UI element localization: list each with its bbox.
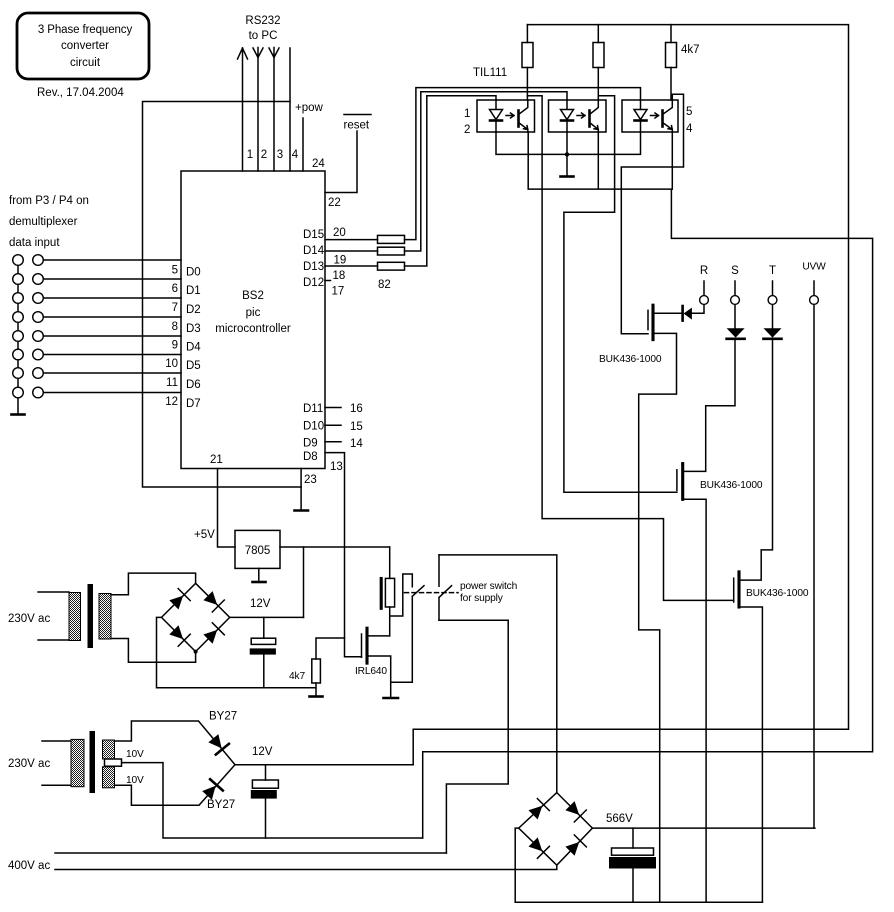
wire Q4 drain to relay coil bbox=[367, 635, 390, 637]
svg-text:IRL640: IRL640 bbox=[355, 666, 387, 677]
switch linkage (dashed) bbox=[405, 592, 459, 594]
wire 12V node riser bbox=[303, 547, 305, 617]
resistor R pull-up 1 bbox=[526, 25, 528, 100]
svg-text:400V ac: 400V ac bbox=[8, 860, 50, 872]
node +V top rail (pull-up rail) bbox=[413, 25, 848, 765]
svg-text:1: 1 bbox=[464, 108, 470, 120]
diode B1 bottom-right bbox=[203, 630, 217, 644]
wire T1 secondary top to bridge AC1 bbox=[111, 573, 196, 595]
svg-text:8: 8 bbox=[172, 321, 178, 333]
wire Q2 drain to S diode bbox=[683, 304, 735, 471]
svg-text:230V ac: 230V ac bbox=[8, 613, 50, 625]
diode B1 bottom-left bbox=[169, 625, 183, 639]
svg-text:7: 7 bbox=[172, 302, 178, 314]
wire RS232 line 2 (pin 2) with fork arrowhead bbox=[253, 48, 263, 172]
svg-text:circuit: circuit bbox=[70, 57, 101, 69]
diode D1 (R phase, pointing left) bbox=[681, 306, 684, 321]
svg-text:24: 24 bbox=[312, 158, 325, 170]
wire relay coil top to 12V line bbox=[389, 547, 391, 578]
wire data line D7 bbox=[43, 392, 181, 394]
wire Q3 drain to T diode bbox=[739, 304, 773, 580]
wire reset to pin 22 bbox=[325, 131, 357, 193]
wire switch S2 bottom to 400V line 1 bbox=[439, 620, 508, 853]
wire T1 primary top bbox=[38, 591, 69, 593]
opto-coupler U4 TIL111 box 3 bbox=[622, 100, 678, 132]
wire RS232 line 3 (pin 3) with fork arrowhead bbox=[269, 48, 279, 172]
svg-text:demultiplexer: demultiplexer bbox=[9, 216, 78, 228]
svg-text:for supply: for supply bbox=[460, 593, 504, 604]
svg-text:15: 15 bbox=[350, 421, 363, 433]
transformer T2 primary winding bbox=[71, 739, 84, 786]
svg-text:from P3 / P4 on: from P3 / P4 on bbox=[9, 195, 89, 207]
wire T1 primary bottom bbox=[38, 639, 69, 641]
svg-text:D15: D15 bbox=[303, 229, 324, 241]
transformer T1 secondary winding bbox=[99, 594, 111, 640]
svg-text:BUK436-1000: BUK436-1000 bbox=[599, 354, 662, 365]
regulator U5 7805 bbox=[235, 530, 280, 568]
diode B3 top-left bbox=[529, 806, 543, 820]
svg-text:6: 6 bbox=[172, 283, 178, 295]
wire D8 pin13 to IRL640 gate bbox=[325, 453, 362, 657]
microcontroller U1 BS2 box bbox=[181, 171, 325, 469]
svg-text:D13: D13 bbox=[303, 261, 324, 273]
svg-text:4: 4 bbox=[686, 123, 693, 135]
diode B3 top-right bbox=[565, 801, 579, 815]
wire R terminal stub bbox=[703, 281, 705, 296]
svg-text:microcontroller: microcontroller bbox=[215, 323, 291, 335]
capacitor C2 leads bbox=[265, 765, 267, 838]
opto 3 phototransistor bbox=[661, 111, 664, 127]
wire T2 secondary B to diode D5 bbox=[115, 765, 235, 806]
resistor 82 (bottom) bbox=[378, 262, 405, 270]
wire data line D3 bbox=[43, 316, 181, 318]
wire Q2 source to DC- rail bbox=[683, 499, 706, 902]
svg-text:2: 2 bbox=[464, 124, 470, 136]
svg-text:T: T bbox=[769, 265, 776, 277]
wire switch S2 top to bridge B3 AC1 bbox=[439, 555, 557, 793]
wire resistor3 to LED1 anode bus bbox=[405, 96, 497, 266]
relay coil K1 bbox=[385, 578, 394, 607]
ground (pin 23) bbox=[295, 509, 309, 512]
diode D3 (T phase, pointing down) bbox=[764, 328, 782, 337]
wire data chain vertical (left pin column) bbox=[17, 260, 19, 398]
capacitor C1 leads bbox=[263, 617, 265, 687]
svg-text:power switch: power switch bbox=[460, 581, 517, 592]
wire resistor1 to LED3 anode bus bbox=[405, 88, 641, 240]
svg-text:S: S bbox=[731, 265, 739, 277]
svg-text:16: 16 bbox=[350, 403, 363, 415]
svg-text:4k7: 4k7 bbox=[681, 44, 700, 56]
svg-text:BUK436-1000: BUK436-1000 bbox=[746, 588, 809, 599]
svg-text:D1: D1 bbox=[186, 285, 201, 297]
svg-text:Rev., 17.04.2004: Rev., 17.04.2004 bbox=[37, 87, 124, 99]
wire S terminal stub bbox=[734, 281, 736, 296]
wire RS232 line 1 (pin 1) with up arrow bbox=[238, 48, 248, 171]
wire pin 23 to ground bbox=[300, 469, 302, 510]
node R terminal bbox=[700, 296, 709, 305]
diode B1 top-left bbox=[169, 596, 183, 610]
svg-text:D4: D4 bbox=[186, 342, 201, 354]
wire 7805 input from 12V node bbox=[280, 546, 390, 548]
svg-text:to PC: to PC bbox=[249, 30, 278, 42]
svg-text:5: 5 bbox=[172, 265, 178, 277]
wire T1 secondary bottom to bridge AC2 bbox=[111, 639, 196, 663]
svg-text:12: 12 bbox=[165, 396, 178, 408]
svg-text:D7: D7 bbox=[186, 398, 201, 410]
resistor R pull-up 3 4k7 bbox=[670, 25, 672, 100]
svg-text:D12: D12 bbox=[303, 277, 324, 289]
svg-text:3 Phase frequency: 3 Phase frequency bbox=[38, 24, 133, 36]
transformer T2 core bbox=[90, 731, 96, 793]
svg-text:converter: converter bbox=[61, 40, 109, 52]
svg-text:RS232: RS232 bbox=[245, 15, 280, 27]
diode B3 bottom-right bbox=[565, 842, 579, 856]
wire Q4 source to ground bbox=[367, 656, 391, 698]
svg-text:BY27: BY27 bbox=[209, 711, 237, 723]
pin stub 17 bbox=[325, 280, 331, 282]
wire T2 center tap to ground rail bbox=[122, 763, 423, 838]
opto 2 phototransistor bbox=[588, 111, 591, 127]
wire D13 to resistor bbox=[325, 265, 378, 267]
pin stub 16 bbox=[325, 407, 341, 409]
svg-text:7805: 7805 bbox=[245, 545, 271, 557]
wire RS232 line 4 (pin 4) bbox=[289, 48, 291, 171]
resistor 82 (middle) bbox=[378, 247, 405, 255]
svg-text:12V: 12V bbox=[252, 746, 273, 758]
diode D2 (S phase, pointing down) bbox=[727, 328, 745, 337]
svg-text:TIL111: TIL111 bbox=[473, 67, 507, 79]
wire 400V line 2 to bridge B3 AC2 bbox=[55, 865, 557, 869]
reset label with overline bbox=[344, 114, 371, 116]
ground (4k7) bbox=[310, 695, 323, 698]
ground (IRL640 source) bbox=[384, 697, 399, 700]
svg-text:D5: D5 bbox=[186, 360, 201, 372]
opto-coupler U3 TIL111 box 2 bbox=[549, 100, 607, 132]
svg-text:3: 3 bbox=[277, 149, 283, 161]
svg-text:+5V: +5V bbox=[194, 529, 215, 541]
opto 2 LED bbox=[561, 100, 574, 132]
svg-text:D2: D2 bbox=[186, 304, 201, 316]
opto-coupler U2 TIL111 box 1 bbox=[477, 100, 535, 132]
svg-text:23: 23 bbox=[304, 474, 317, 486]
wire T2 secondary A to diode D4 bbox=[115, 721, 235, 765]
node bridge AC2 junction bbox=[194, 650, 198, 654]
svg-text:11: 11 bbox=[166, 377, 178, 389]
node S terminal bbox=[731, 296, 740, 305]
svg-text:10V: 10V bbox=[126, 749, 144, 760]
wire resistor2 to LED2 anode bus bbox=[405, 92, 568, 251]
ground (opto LED cathodes) bbox=[561, 175, 574, 178]
ground (data connector) bbox=[17, 398, 19, 414]
svg-text:data input: data input bbox=[9, 237, 60, 249]
svg-text:14: 14 bbox=[350, 438, 363, 450]
svg-text:5: 5 bbox=[686, 106, 692, 118]
svg-text:4: 4 bbox=[292, 149, 299, 161]
pin stub 14 bbox=[325, 441, 341, 443]
svg-text:566V: 566V bbox=[606, 813, 633, 825]
bridge rectifier B3 ring (566V) bbox=[519, 793, 593, 866]
svg-text:D14: D14 bbox=[303, 245, 325, 257]
svg-text:+pow: +pow bbox=[295, 102, 324, 114]
svg-text:D3: D3 bbox=[186, 323, 201, 335]
svg-text:D8: D8 bbox=[303, 451, 318, 463]
wire data line D0 bbox=[43, 259, 181, 261]
wire pin 21 to 7805 output (+5V) bbox=[218, 469, 236, 548]
svg-text:BUK436-1000: BUK436-1000 bbox=[700, 480, 763, 491]
svg-text:20: 20 bbox=[333, 227, 346, 239]
capacitor C1 bbox=[251, 638, 276, 644]
wire opto1 collector to Q3 gate (staircase) bbox=[527, 96, 733, 601]
opto 3 coupling arrow bbox=[651, 113, 659, 118]
transformer T1 core bbox=[88, 584, 94, 648]
wire D15 to resistor bbox=[325, 239, 378, 241]
resistor R2 4k7 (gate pulldown) bbox=[316, 638, 345, 696]
svg-text:230V ac: 230V ac bbox=[8, 758, 50, 770]
wire UVW to DC+ line bbox=[813, 304, 815, 828]
diode D5 BY27 bbox=[201, 779, 223, 801]
wire UVW terminal stub bbox=[813, 281, 815, 296]
wire bridge B3 DC- to bottom rail bbox=[515, 828, 762, 902]
opto 1 coupling arrow bbox=[506, 113, 514, 118]
wire Q1 source to DC- rail bbox=[639, 333, 677, 902]
transformer T1 primary winding bbox=[69, 593, 81, 641]
wire data line D6 bbox=[43, 372, 181, 374]
transformer T2 secondary winding B bbox=[103, 767, 115, 788]
opto 3 LED bbox=[634, 100, 647, 132]
wire bridge B1 DC+ to 12V node bbox=[230, 616, 304, 618]
transistor Q4 IRL640 bbox=[361, 634, 363, 657]
transformer T2 center tap bbox=[105, 759, 122, 766]
wire data line D5 bbox=[43, 354, 181, 356]
bridge rectifier B1 ring bbox=[162, 583, 230, 651]
svg-text:9: 9 bbox=[172, 340, 178, 352]
svg-text:D9: D9 bbox=[303, 438, 318, 450]
svg-text:BS2: BS2 bbox=[242, 290, 264, 302]
node T terminal bbox=[768, 296, 777, 305]
wire Q3 source to DC- rail bbox=[739, 607, 762, 902]
ground (7805) bbox=[253, 581, 266, 584]
wire T terminal stub bbox=[772, 281, 774, 296]
opto 1 LED bbox=[490, 100, 503, 132]
diode B1 top-right bbox=[203, 591, 217, 605]
svg-text:4k7: 4k7 bbox=[289, 671, 305, 682]
wire relay coil bottom to switch S1 bbox=[390, 574, 413, 636]
wire 400V line 1 bbox=[55, 852, 446, 854]
switch S2 contact (mains) bbox=[439, 555, 452, 620]
pin stub 15 bbox=[325, 424, 341, 426]
svg-text:10V: 10V bbox=[126, 775, 144, 786]
svg-text:12V: 12V bbox=[250, 598, 271, 610]
svg-text:10: 10 bbox=[165, 358, 178, 370]
wire data line D2 bbox=[43, 297, 181, 299]
svg-text:18: 18 bbox=[333, 270, 346, 282]
capacitor C3 bbox=[612, 848, 654, 855]
svg-text:D0: D0 bbox=[186, 267, 201, 279]
diode D4 BY27 bbox=[207, 733, 229, 755]
svg-text:21: 21 bbox=[210, 454, 223, 466]
wire T2 primary bottom bbox=[42, 784, 71, 786]
svg-text:13: 13 bbox=[330, 461, 343, 473]
resistor 82 (top) bbox=[378, 235, 405, 243]
capacitor C2 bbox=[252, 780, 278, 788]
title box bbox=[17, 13, 149, 79]
svg-text:D10: D10 bbox=[303, 421, 324, 433]
capacitor C3 leads bbox=[632, 828, 634, 902]
wire D14 to resistor bbox=[325, 250, 378, 252]
transistor Q1 BUK436-1000 (R phase) bbox=[647, 310, 649, 329]
transistor Q3 BUK436-1000 (T phase) bbox=[733, 578, 735, 602]
connector pins (circles) bbox=[13, 255, 24, 266]
switch S1 contact bbox=[391, 586, 424, 683]
svg-text:1: 1 bbox=[247, 149, 253, 161]
wire bridge B1 DC- to ground rail bbox=[157, 617, 316, 687]
node UVW terminal bbox=[810, 296, 819, 305]
svg-text:pic: pic bbox=[246, 307, 261, 319]
wire 7805 ground stub bbox=[258, 568, 260, 581]
node emitter common return bbox=[423, 132, 873, 838]
wire opto3 collector to Q1 gate (bracket) bbox=[621, 94, 683, 333]
wire Q1 drain to diode bbox=[653, 304, 704, 313]
svg-text:D11: D11 bbox=[303, 403, 323, 415]
transistor Q2 BUK436-1000 (S phase) bbox=[676, 470, 678, 491]
wire 12V supply-2 output line bbox=[235, 764, 413, 766]
svg-text:R: R bbox=[700, 265, 708, 277]
transformer T2 secondary winding A bbox=[103, 740, 115, 759]
svg-text:19: 19 bbox=[334, 255, 347, 267]
opto 1 phototransistor bbox=[517, 111, 520, 127]
svg-text:reset: reset bbox=[344, 120, 370, 132]
svg-text:82: 82 bbox=[378, 279, 391, 291]
svg-text:BY27: BY27 bbox=[207, 799, 235, 811]
diode B3 bottom-left bbox=[529, 837, 543, 851]
opto 2 coupling arrow bbox=[577, 113, 585, 118]
svg-text:D6: D6 bbox=[186, 379, 201, 391]
wire T2 primary top bbox=[42, 740, 71, 742]
wire data line D1 bbox=[43, 278, 181, 280]
svg-text:UVW: UVW bbox=[802, 262, 826, 273]
resistor R pull-up 2 bbox=[597, 25, 599, 100]
svg-text:22: 22 bbox=[328, 197, 341, 209]
svg-text:2: 2 bbox=[261, 149, 267, 161]
svg-text:17: 17 bbox=[332, 286, 345, 298]
wire opto2 collector to Q2 gate (staircase) bbox=[564, 96, 677, 493]
wire data line D4 bbox=[43, 335, 181, 337]
wire from pin 4 line to pin 21/23 area (left loop) bbox=[143, 102, 302, 488]
wire +pow to pin 24 bbox=[302, 118, 304, 171]
node LED cathode bus with ground bbox=[496, 132, 641, 176]
wire bridge B3 DC+ to UVW bbox=[592, 827, 815, 829]
